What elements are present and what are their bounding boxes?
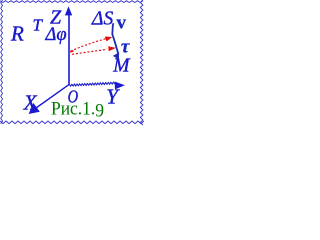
left border (1, 0, 3, 124)
Y axis wavy line (69, 82, 115, 86)
bottom border (0, 121, 144, 124)
svg-text:T: T (33, 16, 44, 35)
trajectory curve (112, 23, 118, 54)
Y axis arrowhead (115, 82, 125, 90)
lower red dashed line (radius) (72, 49, 107, 54)
svg-text:ΔS: ΔS (91, 9, 113, 30)
svg-text:Рис.1.9: Рис.1.9 (51, 100, 104, 122)
svg-text:Δφ: Δφ (45, 25, 67, 45)
right border (140, 0, 143, 125)
svg-text:R: R (10, 22, 24, 46)
X axis line (33, 85, 69, 111)
top border (0, 1, 143, 3)
upper red dashed line (radius) (71, 39, 106, 51)
X axis arrowhead (29, 103, 40, 114)
upper red arrowhead (105, 37, 112, 42)
svg-text:v: v (117, 13, 127, 34)
Z axis arrowhead (65, 6, 72, 15)
svg-text:M: M (112, 56, 131, 77)
svg-text:τ: τ (121, 37, 130, 58)
Z axis line (68, 14, 70, 85)
lower red arrowhead (108, 46, 116, 51)
red apex blob (70, 50, 73, 53)
svg-text:X: X (23, 90, 38, 114)
trajectory end arrowhead (113, 52, 119, 59)
